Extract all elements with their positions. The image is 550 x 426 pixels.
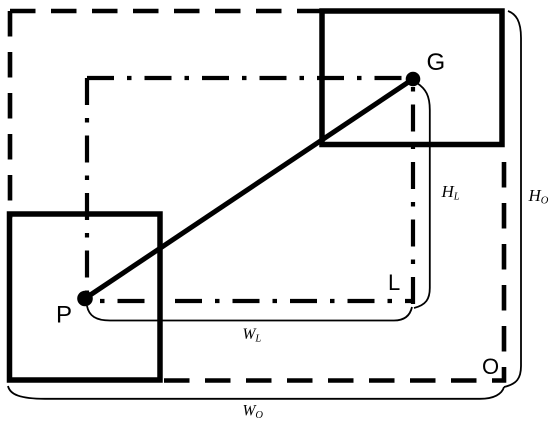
dash-dot rectangle L : right edge [411, 78, 415, 304]
outer dashed rectangle O : right and bottom edges [156, 162, 504, 381]
brace H_O [504, 11, 521, 387]
svg-text:O: O [482, 354, 499, 379]
point G [406, 72, 421, 87]
brace W_L [87, 306, 412, 321]
svg-text:L: L [388, 270, 400, 295]
brace W_O [8, 386, 504, 399]
dash-dot rectangle L : left edge [85, 78, 89, 298]
solid rectangle P box [10, 214, 161, 380]
dash-dot rectangle L : bottom edge [87, 299, 413, 303]
diagonal line from P to G [85, 79, 413, 299]
dash-dot rectangle L : top edge [87, 76, 413, 80]
outer dashed rectangle O : left edge [8, 11, 13, 218]
svg-text:G: G [427, 49, 446, 76]
point P [77, 291, 93, 307]
svg-text:P: P [56, 302, 72, 329]
brace H_L [414, 83, 430, 308]
solid rectangle G box [322, 11, 502, 145]
outer dashed rectangle O : top edge [10, 9, 330, 14]
